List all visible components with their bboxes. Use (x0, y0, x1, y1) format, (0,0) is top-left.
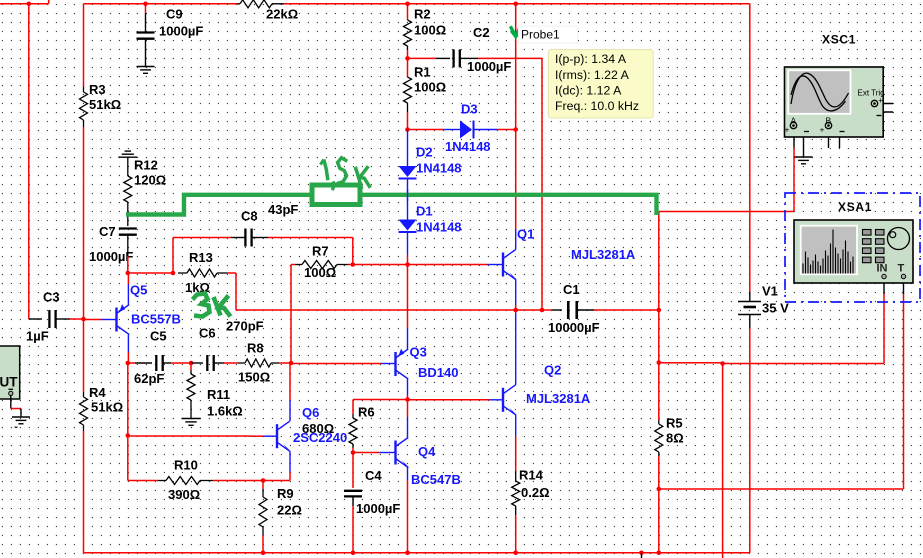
green handwriting 1.5k (320, 158, 370, 190)
svg-text:BC547B: BC547B (411, 472, 461, 487)
wire to Q2 base (408, 399, 504, 401)
svg-text:100Ω: 100Ω (414, 23, 446, 38)
svg-text:BC557B: BC557B (131, 312, 181, 327)
wire ground to R12 (127, 157, 129, 176)
diode D1 1N4148 (399, 220, 417, 233)
node C8/R7 junction (351, 262, 356, 267)
probe Probe1 arrow (510, 26, 520, 36)
svg-text:R12: R12 (134, 158, 158, 173)
green handwriting 3K (193, 294, 231, 317)
probe Probe1 label (519, 26, 578, 43)
svg-text:C9: C9 (166, 7, 183, 22)
svg-text:1N4148: 1N4148 (416, 220, 462, 235)
wire scope B- stub (839, 137, 841, 148)
capacitor C4 (344, 491, 362, 497)
svg-text:XSC1: XSC1 (822, 32, 856, 46)
svg-text:Q5: Q5 (130, 283, 147, 298)
svg-text:MJL3281A: MJL3281A (571, 247, 636, 262)
wire D3 cathode lead (473, 129, 516, 131)
svg-text:120Ω: 120Ω (134, 173, 166, 188)
wire R13 right to y310 row (228, 273, 516, 310)
wire R9 top lead (262, 481, 264, 498)
capacitor C2 (454, 49, 460, 67)
wire R13-C8 riser (173, 238, 231, 274)
node C1 right junction (657, 308, 662, 313)
capacitor C1 (568, 301, 577, 319)
svg-text:1000µF: 1000µF (467, 59, 511, 74)
wire Q2 emitter to R14 (515, 436, 517, 471)
svg-text:R3: R3 (89, 82, 106, 97)
transistor Q4 BC547B (396, 400, 410, 553)
wire C9 stem (145, 4, 147, 32)
wire C4 top (352, 453, 354, 489)
label R9 (277, 486, 302, 518)
node C2 column junction (540, 308, 545, 313)
wire D2 to D1 (407, 179, 409, 220)
capacitor C5 (156, 355, 162, 371)
ground below OUT (12, 417, 30, 427)
wire Q4 base (353, 452, 396, 454)
wire C9 to ground (145, 39, 147, 66)
svg-text:I(p-p): 1.34 A: I(p-p): 1.34 A (555, 52, 627, 66)
svg-text:R6: R6 (358, 405, 375, 420)
label R12 (134, 158, 166, 188)
wire V1 plus column (749, 4, 751, 292)
svg-text:C3: C3 (43, 290, 60, 305)
wire R5 to bottom rail (658, 489, 660, 553)
svg-text:Q6: Q6 (302, 405, 319, 420)
resistor 22kΩ (top rail) (237, 0, 284, 8)
node C3 junction (81, 317, 86, 322)
node R9 bottom-rail junction (261, 551, 266, 556)
node R14 bottom-rail junction (513, 551, 518, 556)
resistor R2 100Ω (404, 4, 412, 50)
svg-text:+: + (820, 124, 825, 134)
label R14 (519, 468, 550, 500)
wire T row (659, 294, 904, 489)
svg-text:IN: IN (877, 263, 888, 275)
wire left column from top rail to C3 (28, 4, 30, 318)
svg-text:Freq.: 10.0 kHz: Freq.: 10.0 kHz (555, 99, 639, 113)
capacitor C8 (245, 229, 251, 247)
resistor R9 22Ω (259, 497, 267, 527)
svg-text:390Ω: 390Ω (168, 487, 200, 502)
svg-text:C4: C4 (365, 468, 382, 483)
wire scope A row (659, 212, 794, 216)
label Q3 (410, 345, 459, 380)
label C1 (548, 282, 600, 335)
label C5 (134, 329, 167, 386)
capacitor C9 (137, 33, 155, 39)
svg-text:A: A (791, 116, 797, 126)
label R7 (304, 244, 336, 280)
svg-text:270pF: 270pF (226, 319, 264, 334)
resistor R13 1kΩ (178, 269, 228, 277)
wire base row to Q1 (408, 264, 504, 266)
svg-text:1000µF: 1000µF (89, 249, 133, 264)
svg-text:R2: R2 (414, 7, 431, 22)
resistor R3 51kΩ (80, 87, 88, 127)
svg-text:100Ω: 100Ω (414, 80, 446, 95)
wire R1 to D3 node (407, 112, 409, 130)
label R2 (414, 7, 446, 38)
wire R3 to C3 node (83, 127, 85, 319)
label C7 (89, 224, 133, 264)
wire feedback column to R10 (128, 436, 158, 481)
svg-text:OUT: OUT (0, 375, 18, 390)
svg-text:I(rms): 1.22 A: I(rms): 1.22 A (555, 68, 630, 82)
transistor Q2 MJL3281A (503, 310, 517, 436)
capacitor C6 (191, 355, 214, 371)
node C4 bottom-rail junction (351, 551, 356, 556)
wire R6 bottom (352, 448, 354, 453)
wire rail corner to R3 (83, 4, 85, 87)
node Q4 bottom-rail junction (405, 551, 410, 556)
label C9 (159, 7, 203, 39)
svg-text:35 V: 35 V (762, 301, 789, 316)
node C9 tap on top rail (143, 2, 148, 7)
wire C7 node to R13 node (128, 272, 173, 274)
wire D3 node to D2 (407, 130, 409, 167)
label D1 (416, 204, 462, 235)
label R4 (89, 385, 123, 415)
svg-text:C5: C5 (150, 329, 167, 344)
XSA1 selection dashed box (785, 193, 920, 302)
ground at bottom rail (641, 553, 643, 558)
node D3 anode junction (405, 127, 410, 132)
wire D1 to base row (407, 232, 409, 265)
svg-text:0.2Ω: 0.2Ω (521, 485, 550, 500)
svg-text:C6: C6 (199, 326, 216, 341)
label R1 (414, 65, 446, 95)
svg-text:150Ω: 150Ω (238, 370, 270, 385)
wire scope A+ lead (793, 137, 795, 212)
wire C1 row (516, 309, 562, 311)
wire C8 right lead (252, 237, 353, 239)
label D2 (416, 145, 462, 176)
svg-text:D2: D2 (416, 145, 433, 160)
node R13 left junction (171, 271, 176, 276)
wire XSA1 T lead (903, 283, 905, 294)
wire D2-D1 column crossing over annotation (407, 189, 409, 201)
resistor R5 8Ω (655, 420, 663, 456)
capacitor C7 (119, 229, 137, 235)
transistor Q5 BC557B (117, 273, 130, 363)
wire scope A- ground lead (803, 137, 805, 157)
svg-text:D3: D3 (461, 102, 478, 117)
wire R8 node to Q3 base (291, 363, 396, 365)
label D3 (445, 102, 491, 154)
svg-text:T: T (898, 263, 905, 275)
node D1 junction base row (405, 262, 410, 267)
svg-text:R4: R4 (89, 385, 106, 400)
svg-text:C7: C7 (99, 224, 116, 239)
svg-text:XSA1: XSA1 (838, 200, 872, 214)
node R11 junction (189, 361, 194, 366)
wire probe column (515, 4, 517, 229)
wire base row to D1 node (353, 264, 408, 266)
wire bottom rail (84, 552, 750, 554)
label R5 (666, 416, 684, 446)
node C2 junction (405, 56, 410, 61)
svg-text:Probe1: Probe1 (521, 28, 560, 42)
resistor R10 390Ω (158, 477, 213, 485)
label XSA1 (838, 200, 872, 214)
wire R11 to ground (190, 400, 192, 419)
tooltip probe readings box (548, 50, 653, 119)
svg-text:BD140: BD140 (418, 365, 458, 380)
wire Q1 emitter to C1 node (515, 280, 517, 311)
wire C3 node to Q5 base (84, 319, 117, 321)
label C6 (199, 319, 264, 341)
wire C5 node down (127, 363, 129, 436)
label Q1 (517, 227, 636, 262)
resistor R1 100Ω (404, 58, 412, 112)
wire C7 to node (127, 235, 129, 273)
connector OUT block (0, 346, 20, 399)
wire right column to R5 (658, 363, 660, 421)
label R10 (168, 458, 200, 502)
node feedback junction (126, 433, 131, 438)
wire R2 to C2 node (407, 50, 409, 58)
svg-text:2SC2240: 2SC2240 (293, 430, 347, 445)
label C4 (356, 468, 400, 516)
node R9 top junction (261, 478, 266, 483)
label R3 (89, 82, 121, 112)
instrument XSC1 oscilloscope (785, 67, 894, 137)
wire C5 left lead (128, 362, 152, 364)
wire R4 to bottom rail (83, 431, 85, 553)
node ground bottom-rail junction (639, 551, 644, 556)
label R6 (302, 405, 375, 436)
wire C3 node to R4 (83, 319, 85, 392)
ground scope A- (795, 157, 813, 164)
svg-text:62pF: 62pF (134, 371, 164, 386)
transistor Q6 2SC2240 (277, 363, 291, 472)
wire IN row (659, 294, 884, 364)
wire R9 to bottom rail (262, 527, 264, 553)
wire C2 right to down column (460, 58, 542, 310)
node R8-Q3 junction (289, 361, 294, 366)
svg-text:I(dc): 1.12 A: I(dc): 1.12 A (555, 83, 622, 97)
svg-text:1µF: 1µF (26, 329, 49, 344)
transistor Q3 BD140 (396, 265, 409, 400)
wire R5 to T junction (658, 456, 660, 489)
svg-text:R1: R1 (414, 65, 431, 80)
svg-text:8Ω: 8Ω (666, 431, 684, 446)
label C2 (467, 25, 511, 74)
ground below C9 (137, 67, 155, 74)
resistor R11 1.6kΩ (187, 374, 195, 400)
label C3 (26, 290, 60, 344)
capacitor C3 (49, 310, 55, 328)
wire V1 minus to bottom rail (749, 328, 751, 553)
svg-text:51kΩ: 51kΩ (89, 97, 121, 112)
battery V1 35V (738, 292, 761, 328)
wire R11 top lead (190, 363, 192, 374)
wire R6 top (352, 400, 354, 415)
wire C8 to R7 node (352, 238, 354, 265)
node R5 bottom-rail junction (657, 551, 662, 556)
label Q2 (526, 363, 591, 406)
wire feedback to Q6 base (128, 435, 277, 437)
label Q6 (293, 405, 347, 445)
wire R14 to bottom rail (515, 515, 517, 553)
svg-text:1N4148: 1N4148 (445, 139, 491, 154)
node probe column tap on top rail (513, 2, 518, 7)
label R11 (207, 387, 243, 419)
svg-text:R9: R9 (277, 486, 294, 501)
wire Q3 collector row (353, 399, 408, 401)
svg-text:C8: C8 (241, 209, 258, 224)
wire C8 left lead (231, 237, 245, 239)
node C7-Q5 junction (126, 271, 131, 276)
node T-row junction (657, 487, 662, 492)
svg-text:1000µF: 1000µF (356, 501, 400, 516)
svg-text:43pF: 43pF (268, 202, 298, 217)
wire main top rail (84, 3, 750, 5)
svg-text:+: + (785, 124, 790, 134)
ground above R12 (118, 151, 137, 157)
instrument XSA1 spectrum analyzer (794, 220, 913, 283)
svg-text:Q4: Q4 (418, 444, 436, 459)
node Q3-Q2 junction (405, 397, 410, 402)
label 22kΩ (266, 7, 298, 22)
wire scope B+ stub (828, 137, 830, 148)
svg-text:B: B (826, 116, 832, 126)
resistor R4 51kΩ (80, 392, 88, 431)
svg-text:R13: R13 (189, 250, 213, 265)
wire OUT to ground (11, 396, 21, 418)
wire C3 left lead (29, 318, 42, 320)
transistor Q1 MJL3281A (503, 229, 517, 280)
svg-text:R11: R11 (207, 387, 230, 402)
svg-text:51kΩ: 51kΩ (91, 399, 123, 414)
wire C6 right lead (214, 362, 238, 364)
wire D3 anode lead (408, 129, 461, 131)
svg-text:22kΩ: 22kΩ (266, 7, 298, 22)
diode D2 1N4148 (399, 166, 417, 179)
svg-text:C1: C1 (563, 282, 580, 297)
resistor R7 100Ω (295, 261, 348, 269)
node Q4 base junction (351, 450, 356, 455)
svg-text:R8: R8 (247, 341, 264, 356)
wire XSA1 IN lead (883, 283, 885, 294)
resistor R14 0.2Ω (512, 471, 520, 515)
svg-text:+: + (878, 95, 883, 105)
node C5 left junction (126, 361, 131, 366)
wire C4 to bottom rail (352, 497, 354, 553)
svg-text:R5: R5 (666, 416, 683, 431)
svg-text:Q1: Q1 (517, 227, 534, 242)
svg-text:10000µF: 10000µF (548, 320, 600, 335)
svg-text:Q2: Q2 (544, 363, 561, 378)
wire C1 right lead (577, 309, 659, 311)
wire right column mid (658, 310, 660, 363)
label R13 (185, 250, 213, 295)
svg-text:D1: D1 (416, 204, 433, 219)
green annotation wire (126, 195, 657, 215)
svg-text:1.6kΩ: 1.6kΩ (207, 404, 243, 419)
node C1 left junction (513, 308, 518, 313)
svg-text:Q3: Q3 (410, 345, 427, 360)
resistor R6 680Ω (349, 414, 357, 448)
svg-text:22Ω: 22Ω (277, 503, 302, 518)
label C8 (241, 202, 298, 224)
node IN-row junction (657, 360, 662, 365)
node V-col junction (720, 361, 725, 366)
node R2 tap on top rail (405, 2, 410, 7)
svg-text:1N4148: 1N4148 (416, 161, 462, 176)
wire C5-C6 link (163, 362, 191, 364)
green annotation resistor box (312, 185, 360, 205)
label Q5 (130, 283, 181, 327)
svg-text:MJL3281A: MJL3281A (526, 391, 591, 406)
svg-text:C2: C2 (473, 25, 490, 40)
resistor R8 150Ω (238, 359, 279, 367)
svg-text:R14: R14 (519, 468, 544, 483)
svg-text:100Ω: 100Ω (304, 265, 336, 280)
wire R7 left riser (291, 265, 295, 364)
svg-text:V1: V1 (762, 284, 778, 299)
label Q4 (411, 444, 461, 487)
wire R8 right lead (279, 362, 291, 364)
label XSC1 (822, 32, 856, 46)
wire C2 left lead (408, 57, 451, 59)
ground below R11 (182, 419, 201, 426)
wire right column upper (658, 212, 660, 311)
label R8 (238, 341, 270, 385)
label V1 (762, 284, 789, 316)
node D3 cathode junction (513, 127, 518, 132)
diode D3 1N4148 (460, 121, 474, 139)
wire C3 right lead (56, 318, 84, 320)
wire R7 right lead (348, 264, 353, 266)
wire R9 node to Q6 emitter (263, 472, 290, 481)
wire R10 right lead (213, 480, 263, 482)
svg-text:R7: R7 (312, 244, 329, 259)
resistor R12 120Ω (124, 176, 132, 202)
wire R12 to C7 (127, 202, 129, 226)
node left-rail junction (27, 2, 32, 7)
svg-text:R10: R10 (174, 458, 198, 473)
wire V-col down (722, 364, 724, 558)
svg-text:1000µF: 1000µF (159, 24, 203, 39)
wire left top rail (0, 0, 49, 4)
